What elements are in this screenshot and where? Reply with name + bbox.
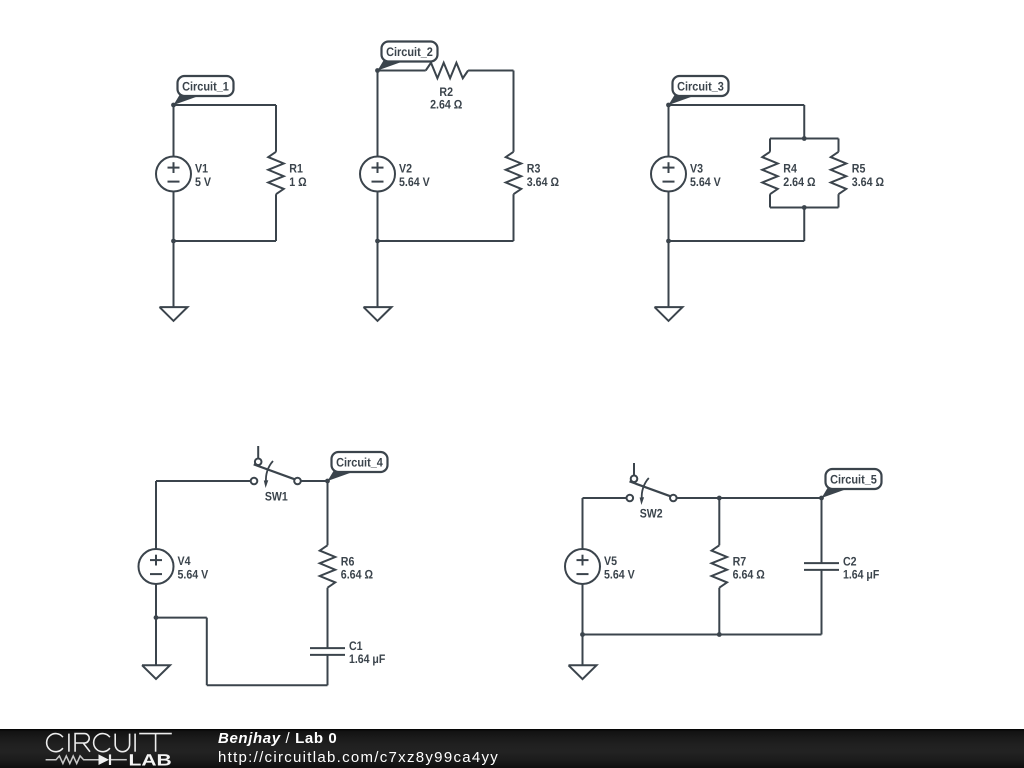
svg-text:LAB: LAB	[129, 751, 172, 768]
